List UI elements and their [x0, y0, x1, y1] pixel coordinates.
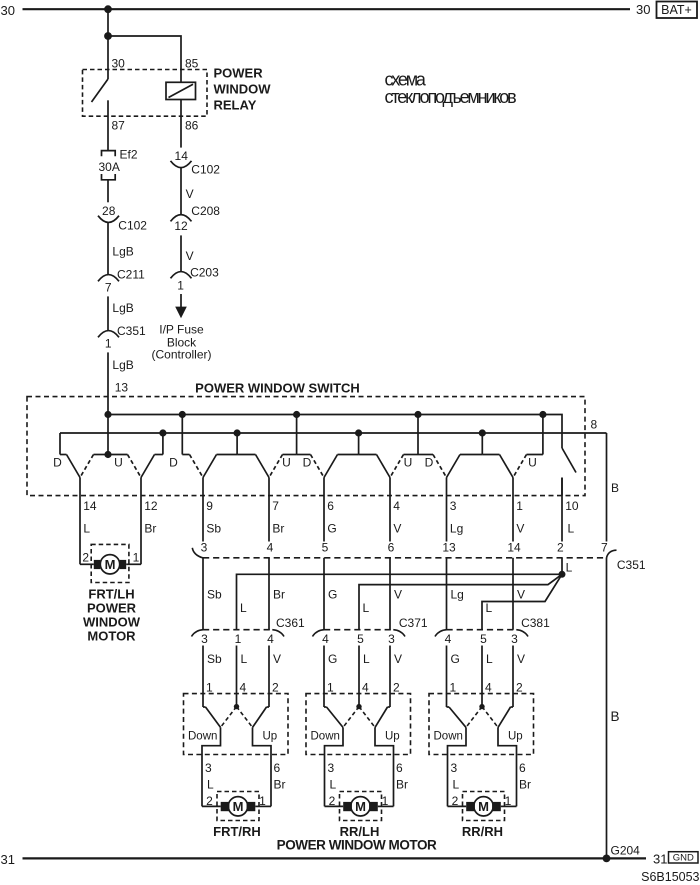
- svg-text:4: 4: [267, 632, 274, 646]
- switch contact tap: [338, 433, 377, 455]
- svg-text:2: 2: [393, 681, 400, 695]
- svg-text:87: 87: [112, 119, 126, 133]
- svg-text:L: L: [363, 652, 370, 666]
- svg-text:Up: Up: [385, 731, 400, 743]
- svg-text:7: 7: [601, 541, 608, 555]
- svg-text:7: 7: [272, 499, 279, 513]
- RR/RH limit switch dashed box: [429, 694, 534, 755]
- FRT/RH Down/Up labels: [188, 731, 277, 743]
- svg-text:1: 1: [327, 681, 334, 695]
- svg-text:U: U: [282, 456, 291, 470]
- svg-text:Br: Br: [519, 778, 531, 792]
- svg-text:L: L: [207, 778, 214, 792]
- L wire labels: [240, 601, 493, 615]
- svg-text:Br: Br: [396, 778, 408, 792]
- svg-text:4: 4: [393, 499, 400, 513]
- svg-text:Down: Down: [434, 731, 463, 743]
- node L (lock feed junction): [559, 561, 573, 578]
- RR/LH lower pin labels: [328, 761, 404, 775]
- relay switch contact (pin 30-87): [92, 79, 109, 151]
- motor M4 RR/RH: [448, 797, 517, 816]
- svg-text:MOTOR: MOTOR: [87, 628, 136, 643]
- svg-text:2: 2: [272, 681, 279, 695]
- svg-text:Br: Br: [274, 778, 286, 792]
- connector C211 pin 7: [98, 268, 145, 295]
- svg-text:LgB: LgB: [112, 301, 133, 315]
- svg-text:1: 1: [105, 336, 112, 350]
- switch S4 RR/RH up (pin 1): [500, 455, 527, 478]
- svg-text:стеклоподъемников: стеклоподъемников: [385, 87, 517, 107]
- wire LgB to switch pin 13: [108, 352, 134, 414]
- bus1 junction dots: [104, 411, 546, 418]
- svg-text:14: 14: [175, 149, 189, 163]
- relay pin label 85: [185, 57, 199, 71]
- svg-text:V: V: [186, 249, 194, 263]
- wire fuse to connector C102 pin 28: [107, 180, 109, 203]
- svg-text:3: 3: [201, 541, 208, 555]
- svg-text:Br: Br: [273, 588, 285, 602]
- RR/LH down contact: [324, 707, 343, 806]
- connector C381 row: [435, 616, 550, 636]
- svg-text:6: 6: [327, 499, 334, 513]
- svg-text:V: V: [186, 187, 194, 201]
- power rail 31 (bottom): [1, 852, 647, 867]
- svg-text:C203: C203: [190, 265, 219, 279]
- wire V to C203: [181, 235, 194, 271]
- svg-text:V: V: [517, 652, 525, 666]
- wire 12 Br to FRT/LH motor: [140, 478, 142, 565]
- svg-text:3: 3: [205, 761, 212, 775]
- svg-text:U: U: [528, 456, 537, 470]
- svg-text:M: M: [355, 799, 366, 814]
- bus2 junction dots: [159, 429, 486, 436]
- svg-text:Down: Down: [188, 731, 217, 743]
- node BAT+: [636, 2, 697, 19]
- wire to FRT/RH pin 2: [268, 646, 270, 708]
- diagram id S6B15053: [641, 870, 699, 884]
- wire colour labels below switch: [83, 521, 574, 535]
- wire 9 Sb (C351 down): [202, 558, 204, 630]
- svg-text:4: 4: [322, 632, 329, 646]
- switch output pin labels: [83, 499, 579, 513]
- relay pin label 30: [112, 57, 126, 71]
- svg-text:9: 9: [206, 499, 213, 513]
- FRT/LH motor dashed box: [91, 544, 129, 582]
- svg-text:1: 1: [235, 632, 242, 646]
- wire 1 V (switch to C351): [512, 478, 514, 542]
- svg-text:D: D: [169, 456, 178, 470]
- svg-text:6: 6: [396, 761, 403, 775]
- svg-text:LgB: LgB: [112, 245, 133, 259]
- power window relay U1 dashed box: [83, 70, 208, 117]
- svg-text:LgB: LgB: [112, 358, 133, 372]
- arrow to I/P fuse block: [175, 294, 187, 318]
- svg-text:14: 14: [507, 541, 521, 555]
- wire relay pin 86 to C102 pin 14: [180, 100, 182, 148]
- svg-text:FRT/RH: FRT/RH: [213, 824, 261, 839]
- svg-text:C351: C351: [617, 558, 646, 572]
- svg-text:86: 86: [185, 119, 199, 133]
- svg-text:30A: 30A: [99, 160, 120, 174]
- switch S4 RR/RH down (pin 3): [433, 455, 460, 478]
- svg-text:30: 30: [112, 57, 126, 71]
- svg-text:Ef2: Ef2: [120, 148, 138, 162]
- svg-text:7: 7: [105, 280, 112, 294]
- svg-text:Br: Br: [144, 521, 156, 535]
- svg-text:RR/RH: RR/RH: [462, 824, 503, 839]
- svg-text:4: 4: [362, 681, 369, 695]
- svg-text:C211: C211: [117, 268, 145, 282]
- wire 4 V (C351 down): [389, 558, 391, 630]
- svg-text:V: V: [394, 652, 402, 666]
- connector C361/C371/C381 pin labels: [201, 632, 518, 646]
- wire 10 L (lock sw to C351): [561, 478, 563, 542]
- svg-text:L: L: [453, 778, 460, 792]
- wire to RR/LH pin 4: [358, 646, 360, 707]
- power rail 30 (top): [1, 3, 631, 18]
- svg-text:L: L: [363, 601, 370, 615]
- svg-text:B: B: [611, 709, 620, 724]
- FRT/RH up contact: [253, 707, 272, 806]
- FRT/RH lower colour labels: [207, 778, 286, 792]
- svg-text:3: 3: [511, 632, 518, 646]
- connector C351 pin labels: [201, 541, 608, 555]
- wire 3 Lg (switch to C351): [446, 478, 448, 542]
- RR/LH Down/Up labels: [311, 731, 400, 743]
- wire 4 V (switch to C351): [389, 478, 391, 542]
- svg-text:3: 3: [450, 499, 457, 513]
- RR/LH terminal labels: [329, 794, 389, 808]
- window lock switch (pin 10): [562, 448, 576, 496]
- wire B (switch pin 8 to ground): [606, 433, 608, 858]
- svg-text:L: L: [240, 601, 247, 615]
- bus wire (bus1 from pin 13): [108, 415, 562, 449]
- wire 3 Lg (C351 down): [446, 558, 448, 630]
- RR/LH limit switch dashed box: [306, 694, 411, 755]
- junction on rail 30: [104, 5, 112, 13]
- connector C203 pin 1: [171, 265, 220, 292]
- svg-text:G: G: [328, 588, 337, 602]
- FRT/RH limit switch dashed box: [184, 694, 289, 755]
- svg-text:30: 30: [1, 3, 15, 18]
- RR/RH lower colour labels: [453, 778, 532, 792]
- wire to RR/LH pin 1: [323, 646, 325, 708]
- wire L branch 2: [359, 574, 562, 629]
- ground G204 junction: [603, 844, 641, 863]
- svg-text:3: 3: [201, 632, 208, 646]
- svg-text:FRT/LH: FRT/LH: [88, 586, 134, 601]
- wire L branch 3: [482, 574, 562, 629]
- svg-text:M: M: [478, 799, 489, 814]
- RR/RH terminal labels: [452, 794, 512, 808]
- wire LgB to C351: [108, 296, 134, 331]
- wire LgB to C211: [108, 223, 134, 275]
- svg-text:S6B15053: S6B15053: [641, 870, 699, 884]
- svg-text:Sb: Sb: [206, 521, 221, 535]
- svg-text:Up: Up: [508, 731, 523, 743]
- relay coil (pin 85-86): [166, 82, 196, 99]
- wire to RR/RH pin 1: [446, 646, 448, 708]
- svg-text:4: 4: [445, 632, 452, 646]
- svg-text:RELAY: RELAY: [214, 98, 257, 113]
- svg-text:10: 10: [565, 499, 579, 513]
- RR/LH motor dashed box: [340, 792, 382, 821]
- connector C361 row: [192, 616, 306, 636]
- svg-text:WINDOW: WINDOW: [83, 614, 141, 629]
- svg-text:G: G: [328, 652, 337, 666]
- svg-text:C351: C351: [117, 324, 146, 338]
- node GND: [653, 851, 698, 866]
- connector C102 pin 14: [171, 149, 221, 177]
- wire B labels: [611, 481, 620, 724]
- svg-text:V: V: [517, 588, 525, 602]
- svg-text:4: 4: [240, 681, 247, 695]
- svg-text:Sb: Sb: [207, 652, 222, 666]
- motor M2 FRT/RH: [202, 797, 271, 816]
- svg-text:L: L: [566, 561, 573, 575]
- switch contact tap: [217, 433, 256, 455]
- svg-text:L: L: [486, 601, 493, 615]
- svg-text:5: 5: [322, 541, 329, 555]
- switch S2 FRT/RH up (pin 7): [256, 455, 283, 478]
- FRT/RH lower pin labels: [205, 761, 281, 775]
- RR/RH motor dashed box: [463, 792, 505, 821]
- svg-text:5: 5: [480, 632, 487, 646]
- svg-text:85: 85: [185, 57, 199, 71]
- svg-text:30: 30: [636, 2, 650, 17]
- svg-text:C208: C208: [191, 204, 220, 218]
- svg-text:C381: C381: [521, 616, 550, 630]
- relay pin label 86: [185, 119, 199, 133]
- svg-text:POWER WINDOW SWITCH: POWER WINDOW SWITCH: [195, 381, 360, 396]
- svg-text:6: 6: [274, 761, 281, 775]
- svg-text:Lg: Lg: [450, 521, 463, 535]
- svg-text:C371: C371: [399, 616, 428, 630]
- RR/LH box pin labels: [327, 681, 400, 695]
- switch S1 FRT/LH up (pin 12): [128, 455, 155, 478]
- svg-text:2: 2: [557, 541, 564, 555]
- svg-text:Lg: Lg: [451, 588, 464, 602]
- RR/LH common junction: [343, 704, 375, 728]
- svg-text:U: U: [114, 456, 123, 470]
- wire to RR/RH pin 2: [512, 646, 514, 708]
- switch pin 8 label: [591, 418, 598, 432]
- svg-text:12: 12: [144, 499, 158, 513]
- svg-text:28: 28: [102, 204, 116, 218]
- switch D/U labels: [53, 456, 537, 470]
- svg-text:G204: G204: [611, 844, 641, 858]
- svg-text:BAT+: BAT+: [661, 3, 692, 17]
- motor M3 RR/LH: [325, 797, 394, 816]
- svg-text:1: 1: [516, 499, 523, 513]
- power window switch dashed box: [27, 397, 585, 496]
- svg-text:5: 5: [357, 632, 364, 646]
- svg-text:C102: C102: [118, 219, 147, 233]
- svg-text:L: L: [568, 521, 575, 535]
- svg-text:U: U: [404, 456, 413, 470]
- wire V to C208: [181, 168, 194, 215]
- RR/RH up contact: [498, 707, 517, 806]
- wire 9 Sb (switch to C351): [202, 478, 204, 542]
- svg-text:L: L: [330, 778, 337, 792]
- svg-text:WINDOW: WINDOW: [214, 82, 272, 97]
- switch contact tap pin13 feed: [94, 415, 128, 455]
- svg-text:12: 12: [174, 219, 188, 233]
- switch contact tap: [283, 415, 311, 455]
- svg-text:6: 6: [519, 761, 526, 775]
- svg-text:POWER WINDOW MOTOR: POWER WINDOW MOTOR: [277, 838, 437, 853]
- RR/LH lower colour labels: [330, 778, 409, 792]
- svg-text:1: 1: [206, 681, 213, 695]
- wire colour labels below lower connectors: [207, 652, 525, 666]
- junction node feed to relay coil: [104, 32, 112, 40]
- FRT/RH box pin labels: [206, 681, 279, 695]
- wire colour labels below C351: [207, 588, 525, 602]
- wire branch to relay coil pin 85: [108, 36, 181, 82]
- connector C351 pin 1 (left column): [98, 324, 146, 351]
- svg-text:13: 13: [442, 541, 456, 555]
- svg-text:L: L: [241, 652, 248, 666]
- RR/RH box pin labels: [450, 681, 524, 695]
- connector C208 pin 12: [171, 204, 221, 233]
- wire 6 G (switch to C351): [323, 478, 325, 542]
- switch contact tap: [460, 433, 500, 455]
- svg-text:14: 14: [83, 499, 97, 513]
- svg-text:V: V: [516, 521, 524, 535]
- wire to FRT/RH pin 4: [236, 646, 238, 707]
- fuse Ef2 30A: [99, 148, 138, 180]
- wire L branch 1: [237, 574, 563, 629]
- svg-text:2: 2: [82, 551, 89, 565]
- svg-text:L: L: [83, 521, 90, 535]
- motor M1 FRT/LH: [80, 555, 141, 574]
- wire to RR/LH pin 2: [389, 646, 391, 708]
- switch contact tap: [155, 433, 163, 455]
- switch contact tap: [182, 415, 189, 455]
- svg-text:3: 3: [328, 761, 335, 775]
- switch S1 FRT/LH down (pin 14): [67, 455, 94, 478]
- wire 10 L below C351: [561, 558, 563, 575]
- svg-text:Up: Up: [263, 731, 278, 743]
- svg-text:D: D: [303, 456, 312, 470]
- svg-text:C102: C102: [191, 163, 220, 177]
- switch contact tap (bus2 left end): [60, 433, 67, 455]
- svg-text:8: 8: [591, 418, 598, 432]
- svg-text:13: 13: [115, 381, 129, 395]
- RR/RH down contact: [447, 707, 467, 806]
- svg-text:C361: C361: [276, 616, 305, 630]
- switch S2 FRT/RH down (pin 9): [190, 455, 217, 478]
- connector C371 row: [313, 616, 428, 636]
- wire 6 G (C351 down): [323, 558, 325, 630]
- wire 1 V (C351 down): [512, 558, 514, 630]
- svg-text:GND: GND: [673, 853, 694, 864]
- FRT/RH motor dashed box: [217, 792, 259, 821]
- svg-text:2: 2: [516, 681, 523, 695]
- RR/RH common junction: [466, 704, 498, 728]
- svg-text:M: M: [105, 557, 116, 572]
- RR/RH lower pin labels: [451, 761, 527, 775]
- RR/LH up contact: [375, 707, 394, 806]
- svg-text:Down: Down: [311, 731, 340, 743]
- RR/RH Down/Up labels: [434, 731, 523, 743]
- svg-text:V: V: [393, 521, 401, 535]
- svg-text:Br: Br: [272, 521, 284, 535]
- svg-text:D: D: [53, 456, 62, 470]
- svg-text:M: M: [233, 799, 244, 814]
- wire 7 Br (C351 down): [268, 558, 270, 630]
- annotation (schema): [385, 69, 517, 107]
- switch contact tap: [404, 415, 434, 455]
- wire to RR/RH pin 4: [481, 646, 483, 707]
- svg-text:3: 3: [388, 632, 395, 646]
- svg-text:4: 4: [267, 541, 274, 555]
- svg-text:POWER: POWER: [87, 600, 137, 615]
- connector C351 row (dashed): [192, 548, 646, 572]
- svg-text:31: 31: [653, 851, 667, 866]
- power window switch title: [195, 381, 360, 396]
- bus wire (bus2 to pin 8): [60, 432, 607, 434]
- svg-text:6: 6: [388, 541, 395, 555]
- RR/LH name label: [340, 824, 380, 839]
- RR/RH name label: [462, 824, 503, 839]
- svg-text:D: D: [425, 456, 434, 470]
- svg-text:31: 31: [1, 852, 15, 867]
- svg-text:Sb: Sb: [207, 588, 222, 602]
- svg-text:L: L: [486, 652, 493, 666]
- relay name label: [214, 66, 272, 113]
- switch S3 RR/LH down (pin 6): [311, 455, 338, 478]
- svg-text:B: B: [611, 481, 619, 495]
- switch contact tap: [527, 415, 543, 455]
- svg-text:4: 4: [485, 681, 492, 695]
- svg-text:(Controller): (Controller): [151, 347, 211, 361]
- FRT/RH common junction: [221, 704, 253, 728]
- I/P fuse block label: [151, 323, 211, 362]
- svg-text:3: 3: [451, 761, 458, 775]
- svg-text:G: G: [451, 652, 460, 666]
- svg-text:1: 1: [133, 551, 140, 565]
- FRT/LH motor terminal labels: [82, 551, 139, 565]
- FRT/LH motor name label: [83, 586, 141, 643]
- svg-text:1: 1: [177, 278, 184, 292]
- FRT/RH terminal labels: [206, 794, 266, 808]
- svg-text:G: G: [327, 521, 336, 535]
- wire to FRT/RH pin 1: [202, 646, 204, 708]
- FRT/RH name label: [213, 824, 261, 839]
- wire 14 L to FRT/LH motor: [79, 478, 81, 565]
- svg-text:1: 1: [450, 681, 457, 695]
- power window motor title: [277, 838, 437, 853]
- svg-text:V: V: [273, 652, 281, 666]
- svg-text:V: V: [394, 588, 402, 602]
- FRT/RH down contact: [202, 707, 221, 806]
- relay pin label 87: [112, 119, 126, 133]
- wire 7 Br (switch to C351): [268, 478, 270, 542]
- connector C102 pin 28: [98, 204, 147, 233]
- svg-text:POWER: POWER: [214, 66, 264, 81]
- junction at driver switch common: [104, 451, 111, 458]
- wire rail-30 to relay switch pin 30: [107, 9, 109, 79]
- switch S3 RR/LH up (pin 4): [377, 455, 404, 478]
